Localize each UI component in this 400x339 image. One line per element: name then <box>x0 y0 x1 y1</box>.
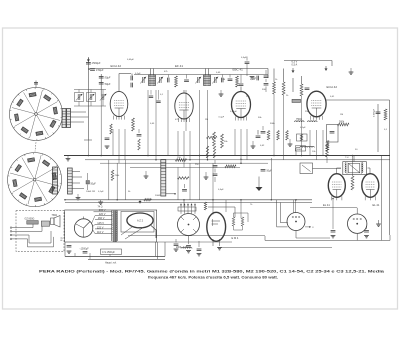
arrow antenna top <box>87 59 90 62</box>
wire input lead 2 <box>12 230 27 232</box>
capacitor C-osc <box>184 79 189 81</box>
svg-text:ECH 42: ECH 42 <box>327 85 338 89</box>
svg-text:1M: 1M <box>222 79 225 81</box>
wire top rail right segment <box>284 60 332 62</box>
wire strip B stubs <box>73 171 81 173</box>
wire rail 3 <box>100 162 268 164</box>
switch contact strip A <box>62 109 66 128</box>
wire right bus vertical <box>389 100 391 235</box>
pickup coil block <box>27 221 38 225</box>
capacitor C-mid3 <box>197 248 202 250</box>
capacitor C-mid rails b <box>213 173 218 175</box>
capacitor C-v6 grid <box>182 189 187 191</box>
capacitor grid V1 <box>130 76 132 81</box>
capacitor C-mid 2000uF <box>174 243 179 245</box>
resistor R-osc2 <box>236 76 239 87</box>
wire links right <box>273 94 275 156</box>
wire input lead 3 <box>12 234 27 236</box>
capacitor C-k1 <box>105 137 110 139</box>
wire em4 right loop <box>234 226 243 230</box>
transformer tap 4 <box>95 223 112 225</box>
svg-text:0,1μF: 0,1μF <box>135 73 141 75</box>
svg-text:220 V: 220 V <box>99 212 106 216</box>
resistor R5 <box>273 82 276 94</box>
wire EM4 loop <box>208 207 235 217</box>
wire V3 grid <box>240 87 242 92</box>
svg-text:EL 41: EL 41 <box>373 203 380 207</box>
tube V5 AZ2 rectifier <box>127 213 153 228</box>
wire antenna feed vertical <box>87 58 89 104</box>
wire bottom run <box>65 255 165 257</box>
chassis arrow mid right <box>258 177 260 188</box>
trimmer cap IFT2 left <box>197 77 199 83</box>
coil filter choke <box>300 146 302 147</box>
stub above wafer A <box>35 81 37 88</box>
resistor R-rail1 250 <box>176 159 187 162</box>
resistor R-mid v1 <box>206 146 208 158</box>
dark block grid coil <box>292 99 301 102</box>
tube socket V6 <box>178 214 200 236</box>
wire right bus vertical 2 <box>377 104 379 152</box>
svg-text:10kΩ 2W: 10kΩ 2W <box>86 191 96 193</box>
capacitor C-k1b <box>137 134 142 136</box>
svg-text:A Z 2: A Z 2 <box>137 219 144 223</box>
capacitor under IFT1 a <box>149 95 153 97</box>
pickup inner wiring <box>26 224 54 247</box>
mains unit box <box>65 210 157 242</box>
svg-text:0,1μF: 0,1μF <box>219 117 225 119</box>
svg-text:PERA RADIO (Pertenati) - Mod.: PERA RADIO (Pertenati) - Mod. RF/745. Ga… <box>39 270 384 274</box>
power transformer primary winding <box>110 211 113 213</box>
selector fan wires <box>92 216 96 224</box>
wire trimmer row <box>74 89 106 91</box>
capacitor C-osc2 <box>228 78 233 80</box>
svg-text:50μF: 50μF <box>105 82 111 86</box>
svg-text:2000∼4μF: 2000∼4μF <box>176 247 188 249</box>
svg-text:0,005μF: 0,005μF <box>374 108 376 117</box>
input terminals <box>10 227 12 229</box>
svg-text:160 V: 160 V <box>98 216 105 220</box>
svg-text:0,5μF: 0,5μF <box>241 57 247 59</box>
coil under V6 <box>181 247 183 248</box>
wire V1 grid cap <box>118 74 120 92</box>
svg-text:110 V: 110 V <box>97 230 104 234</box>
wire top rail <box>88 68 268 70</box>
svg-text:E M 4: E M 4 <box>232 236 239 240</box>
volume potentiometer ladder <box>161 160 166 197</box>
wire V2 grid <box>183 90 185 93</box>
resistor R-k3 50k <box>221 134 224 148</box>
resistor R-out1 <box>326 141 329 152</box>
output transformer <box>343 162 367 175</box>
resistor R-rail3 <box>178 177 190 180</box>
resistor R-mid v2 <box>213 146 215 158</box>
tube V1 ECH42 <box>110 91 128 116</box>
transformer tap 6 <box>95 233 112 235</box>
trimmer cap IFT1 left <box>142 77 144 83</box>
svg-text:200Ω: 200Ω <box>155 195 161 197</box>
wire junction dots <box>100 155 102 157</box>
capacitor C-ant 2 <box>90 68 95 70</box>
ground right pair <box>376 223 381 225</box>
wire second rail <box>134 74 268 76</box>
svg-text:0,5M: 0,5M <box>250 79 255 81</box>
wire osc coupling <box>292 78 294 92</box>
svg-text:C.S.1500μF: C.S.1500μF <box>102 251 115 254</box>
voltage selector disc <box>74 219 92 237</box>
svg-text:0,1μF: 0,1μF <box>300 127 306 129</box>
capacitor C3 50uF <box>99 76 104 78</box>
capacitor C-low1 50uF <box>86 181 90 185</box>
svg-text:50μF: 50μF <box>105 76 111 80</box>
capacitor top 0,5 <box>245 61 250 63</box>
tube V3 EBC41 <box>232 92 251 118</box>
resistor R-tone <box>144 199 152 201</box>
svg-text:T.U.: T.U. <box>345 157 349 159</box>
wire bottom mid horizontals <box>128 235 265 237</box>
svg-text:P.U.: P.U. <box>62 236 64 241</box>
svg-text:≈1500μF: ≈1500μF <box>80 248 90 251</box>
ground under bus left <box>66 158 71 160</box>
ground bus 4 <box>288 143 293 145</box>
wire dropper v4 <box>309 130 311 156</box>
ground low left <box>76 197 81 199</box>
svg-text:EF 41: EF 41 <box>175 64 183 68</box>
svg-text:500k: 500k <box>339 121 345 124</box>
wire rail 2 <box>85 159 390 161</box>
loudspeaker symbol small <box>51 218 55 225</box>
transformer tap 2 <box>95 215 112 217</box>
wire dropper v3 <box>234 129 236 156</box>
IF transformer IFT1 winding <box>149 75 156 86</box>
wire left column <box>87 104 89 140</box>
svg-text:0,1μF: 0,1μF <box>98 191 104 193</box>
arrow heater 2 <box>325 68 328 71</box>
capacitor C-rail 50uF <box>261 169 266 171</box>
svg-text:1M: 1M <box>340 114 343 116</box>
resistor R6 <box>282 82 285 95</box>
wire el41 connects <box>336 168 338 174</box>
coil L-osc 750 <box>295 121 297 122</box>
wire lower rail 2 <box>65 202 312 204</box>
capacitor top mid <box>256 76 258 81</box>
resistor R-k4 <box>267 131 270 141</box>
transformer tap 1 <box>94 211 113 213</box>
tube V9 EL41 second <box>362 174 379 198</box>
ground bus 3 <box>251 145 256 147</box>
trimmer cap IFT2 right <box>214 77 216 83</box>
AZ2 lead right <box>151 226 156 239</box>
svg-text:0,05μF: 0,05μF <box>127 59 135 61</box>
svg-text:ECH 42: ECH 42 <box>111 64 122 68</box>
capacitor C-out1 <box>331 230 336 232</box>
power transformer core <box>113 211 115 243</box>
tube V2 EF41 <box>175 93 193 119</box>
capacitor under IFT1 b <box>156 100 160 102</box>
trimmer T3 <box>101 94 103 100</box>
rotary wave-band switch wafer S1a <box>10 88 63 141</box>
record player unit dashed box <box>16 211 64 252</box>
jack circle right 2 <box>348 214 367 233</box>
IFT2 stub to rail <box>205 69 207 76</box>
ganged switch shaft dashed <box>35 142 36 151</box>
capacitor C 0.005 <box>376 111 381 113</box>
svg-text:750Ω: 750Ω <box>296 118 302 121</box>
svg-text:2M: 2M <box>205 119 208 121</box>
resistor R10 <box>384 109 387 120</box>
resistor above EM4 <box>204 202 206 210</box>
ground top right <box>349 71 354 73</box>
capacitor C-ant 1 <box>86 62 91 64</box>
boxed resistor unit <box>297 134 308 141</box>
resistor R-k1b <box>110 124 112 134</box>
ground bus 2 <box>204 176 209 178</box>
svg-text:frequenza 467 kc/s. Potenza d’: frequenza 467 kc/s. Potenza d’uscita 6,5… <box>148 275 278 279</box>
coil L-osc second <box>308 121 310 122</box>
svg-text:EL 41: EL 41 <box>323 203 330 207</box>
svg-text:EBC 41: EBC 41 <box>233 68 244 72</box>
capacitor C-el 1 <box>67 245 72 247</box>
arrow heater 1 <box>292 70 295 73</box>
wire input lead 1 <box>12 227 27 229</box>
pickup block 2 <box>41 221 49 226</box>
svg-text:230 V: 230 V <box>99 208 106 212</box>
wire to jack <box>277 200 288 227</box>
capacitor C-k4 <box>261 131 266 133</box>
resistor R-k4c <box>286 131 289 141</box>
capacitor C-out2 <box>364 230 369 232</box>
trimmer T2 <box>87 93 96 102</box>
tube V8 EL41 first <box>328 174 345 198</box>
resistor R-k2 <box>213 132 216 146</box>
trimmer cap IFT1 right <box>159 77 161 83</box>
capacitor IFT2 right <box>221 78 223 83</box>
svg-text:125 V: 125 V <box>97 225 104 229</box>
capacitor top mid 3 <box>264 83 269 85</box>
capacitor C-mid2 <box>186 245 191 247</box>
svg-text:0,5μF: 0,5μF <box>218 189 224 191</box>
wire low verticals <box>108 160 110 200</box>
svg-text:0,5 A: 0,5 A <box>292 64 298 67</box>
wire right verticals bottom <box>381 156 383 241</box>
resistor R-low 750k <box>111 170 114 181</box>
capacitor C right1 <box>305 87 310 89</box>
resistor R-em4 <box>232 217 234 226</box>
capacitor C-mid rails a <box>213 165 218 167</box>
svg-text:Haupt. mit.: Haupt. mit. <box>105 262 117 265</box>
resistor R-mid h <box>207 136 218 138</box>
resistor R7 <box>300 84 303 96</box>
resistor R-osc <box>175 76 178 87</box>
boxed label 100 <box>295 146 305 151</box>
tube V4 ECH42 <box>307 91 326 117</box>
wire dropper v2 <box>177 131 179 156</box>
resistor R8 500k <box>338 123 350 126</box>
wire links left <box>87 140 89 156</box>
svg-text:74 Ω: 74 Ω <box>98 207 103 209</box>
switch contact strip B <box>53 167 58 194</box>
rotary wave-band switch wafer S1b <box>8 153 62 207</box>
capacitor C-el 2 <box>83 251 88 253</box>
svg-text:50μF: 50μF <box>91 184 97 186</box>
power transformer secondary winding <box>116 211 119 213</box>
svg-text:1500μF: 1500μF <box>92 61 101 65</box>
resistor R-k1 <box>132 118 135 131</box>
IFT1 stub to rail <box>150 69 152 76</box>
resistor R9 <box>326 144 329 158</box>
resistor R-rail2 <box>225 165 236 168</box>
wire mid verticals <box>177 167 179 199</box>
wire main bus <box>64 155 390 157</box>
svg-text:145 V: 145 V <box>97 221 104 225</box>
wire input lead 4 <box>12 238 27 240</box>
trimmer T1 <box>75 93 84 102</box>
resistor R-g el41 <box>351 176 354 190</box>
transformer tap 5 <box>95 228 112 230</box>
pins fan above V6 <box>180 204 182 214</box>
speaker jack circle right <box>287 213 305 231</box>
small box T.P. <box>300 163 313 174</box>
capacitor C-k2 <box>256 135 261 137</box>
boxed label C.S.1500uF <box>101 249 122 254</box>
IF transformer IFT2 winding <box>204 75 211 86</box>
transformer tap 3 <box>95 219 112 221</box>
resistor R-k4b <box>277 131 280 141</box>
wire jack2 top <box>310 206 357 208</box>
svg-text:0,01μF: 0,01μF <box>230 111 238 113</box>
AZ2 compartment box <box>121 212 154 233</box>
svg-text:GZ 800Ω: GZ 800Ω <box>25 218 35 221</box>
capacitor IFT1 right <box>167 78 169 83</box>
capacitor C4 <box>99 82 104 84</box>
wire grid feed vertical <box>100 74 102 96</box>
resistor R-em4b <box>241 217 243 226</box>
tube V7 EM4 magic eye <box>207 212 226 241</box>
ground above transformer <box>98 201 103 203</box>
wire lower rail 1 <box>65 199 312 201</box>
capacitor top mid 2 <box>264 75 269 77</box>
wire rail 4 segment <box>130 166 240 168</box>
wire dropper v1 <box>112 129 114 156</box>
box right cap unit <box>327 125 339 143</box>
wire V4 plate right <box>326 99 389 101</box>
ground bus 1 <box>144 175 149 177</box>
ground top mid <box>219 93 224 95</box>
wire top right verticals <box>273 69 275 83</box>
wire strip A stubs <box>71 111 87 113</box>
